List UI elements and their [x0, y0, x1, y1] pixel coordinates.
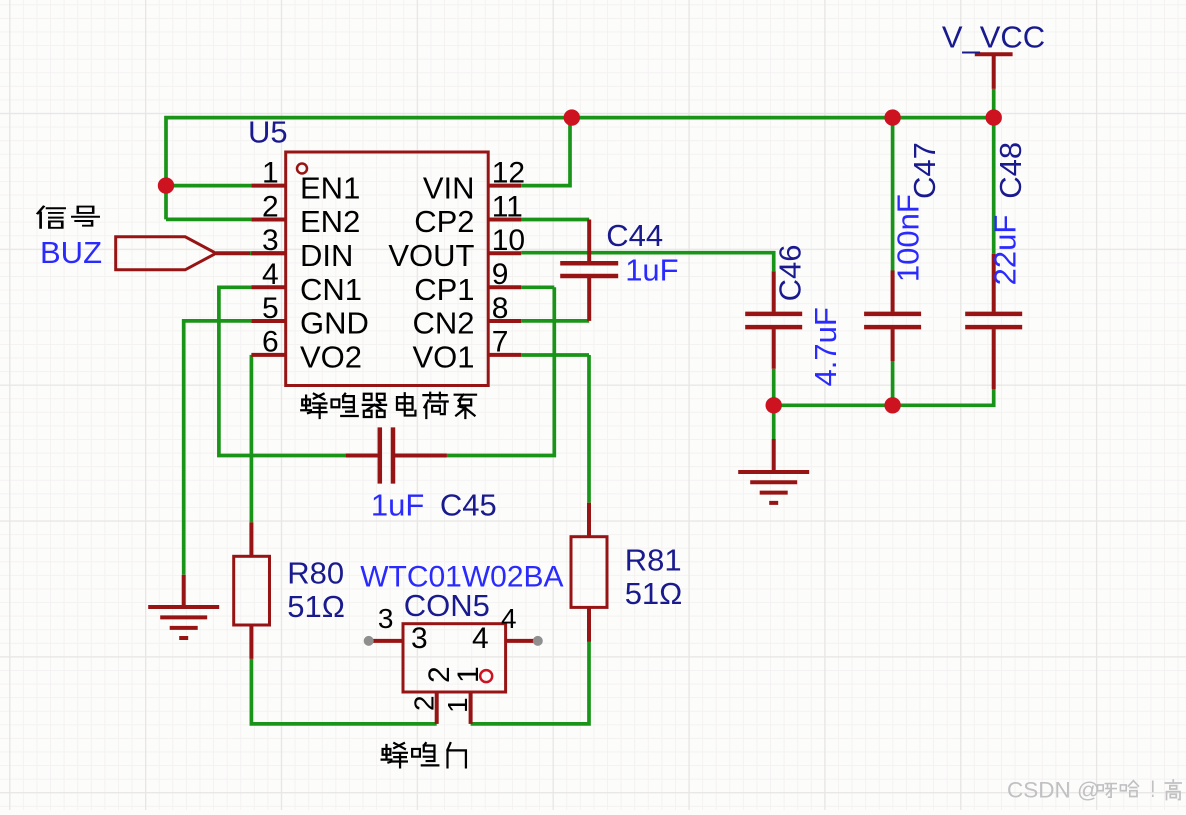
svg-text:3: 3 — [262, 224, 279, 257]
svg-text:BUZ: BUZ — [40, 235, 102, 270]
CON5 description 蜂鸣片 — [382, 743, 407, 767]
wire VOUT to C46 — [521, 253, 774, 272]
svg-text:4: 4 — [262, 258, 279, 291]
wire CON5 pin1 to R81 bottom — [471, 642, 589, 724]
junction dot (892.6,117.6) — [884, 109, 900, 125]
svg-text:VO2: VO2 — [300, 340, 362, 375]
wire pin2 EN2 branch — [166, 218, 251, 222]
wire CP1 down to C45 right — [447, 287, 554, 455]
svg-text:8: 8 — [492, 292, 509, 325]
junction dot (892.6,405.3) — [884, 397, 900, 413]
net label BUZ flag — [116, 237, 216, 270]
wire ground stem right — [772, 405, 776, 439]
capacitor C47 — [891, 271, 895, 362]
U5 pin1 indicator circle — [297, 164, 307, 174]
wire GND net down — [184, 321, 252, 575]
svg-text:CP1: CP1 — [414, 272, 474, 307]
svg-text:DIN: DIN — [300, 238, 353, 273]
U5 pin 11 stub — [488, 218, 521, 222]
svg-text:EN1: EN1 — [300, 170, 360, 205]
svg-text:2: 2 — [262, 190, 279, 223]
ground symbol left (GND net) — [182, 575, 186, 607]
U5 pin 3 stub — [251, 251, 285, 255]
ground symbol right (under C46) — [772, 439, 776, 472]
svg-text:100nF: 100nF — [890, 194, 925, 282]
svg-text:4: 4 — [501, 603, 517, 634]
CON5 pin 4 lead — [506, 639, 538, 643]
wire C48 top — [992, 118, 996, 254]
svg-text:22uF: 22uF — [988, 215, 1023, 286]
U5 pin 10 stub — [488, 251, 521, 255]
wire R80 bottom to CON5 pin2 — [251, 659, 436, 724]
junction dot (166,185.6) — [158, 177, 174, 193]
U5 pin 9 stub — [488, 285, 521, 289]
svg-text:U5: U5 — [248, 114, 288, 149]
wire CN2 to C44 bottom — [521, 319, 589, 323]
CON5 pin 2 lead — [435, 692, 439, 724]
CON5 pin1 indicator circle — [480, 670, 492, 682]
svg-text:R81: R81 — [625, 543, 682, 578]
U5 pin 7 stub — [488, 353, 521, 357]
svg-text:51Ω: 51Ω — [625, 576, 683, 611]
svg-text:CP2: CP2 — [414, 204, 474, 239]
wire C46 bottom rail to C48 — [774, 369, 994, 406]
wire pin1 EN1 branch — [166, 184, 251, 188]
U5 pin 12 stub — [488, 184, 521, 188]
resistor R81 — [587, 503, 591, 642]
svg-text:11: 11 — [492, 190, 523, 223]
svg-text:C45: C45 — [440, 487, 497, 522]
svg-text:6: 6 — [262, 326, 279, 359]
wire CN1 down to C45 left — [219, 287, 346, 455]
svg-text:GND: GND — [300, 306, 369, 341]
U5 description 蜂鸣器电荷泵 — [301, 394, 326, 418]
U5 pin 8 stub — [488, 319, 521, 323]
junction dot (993.7,117.6) — [986, 109, 1002, 125]
CON5 pin 3 lead — [369, 639, 403, 643]
svg-text:C46: C46 — [772, 245, 807, 302]
svg-text:R80: R80 — [287, 556, 344, 591]
junction dot (571.8,117.6) — [564, 109, 580, 125]
capacitor C46 — [772, 271, 776, 369]
svg-text:VO1: VO1 — [412, 340, 474, 375]
svg-text:4.7uF: 4.7uF — [808, 307, 843, 386]
U5 pin 5 stub — [251, 319, 285, 323]
U5 pin 1 stub — [251, 184, 285, 188]
svg-text:1: 1 — [452, 666, 485, 683]
net flag V_VCC — [975, 54, 1013, 89]
svg-text:10: 10 — [492, 224, 525, 257]
capacitor C45 — [346, 454, 447, 458]
capacitor C48 — [992, 254, 996, 389]
svg-text:51Ω: 51Ω — [287, 589, 345, 624]
svg-text:1uF: 1uF — [625, 252, 678, 287]
svg-text:C44: C44 — [606, 218, 663, 253]
junction dot (773.7,405.3) — [766, 397, 782, 413]
svg-text:5: 5 — [262, 292, 279, 325]
wire CP2 to C44 — [520, 218, 589, 222]
svg-text:CN2: CN2 — [412, 306, 474, 341]
svg-text:12: 12 — [492, 156, 525, 189]
wire net EN1/EN2 vertical + top rail V_VCC — [166, 118, 994, 220]
connector CON5 body — [403, 624, 506, 692]
svg-text:VOUT: VOUT — [388, 238, 474, 273]
wire C47 bottom — [891, 361, 895, 405]
svg-text:1uF: 1uF — [371, 487, 424, 522]
svg-text:7: 7 — [492, 326, 509, 359]
svg-text:1: 1 — [262, 156, 279, 189]
svg-text:CN1: CN1 — [300, 272, 362, 307]
CON5 pin 1 lead — [469, 692, 473, 724]
svg-text:VIN: VIN — [423, 170, 475, 205]
svg-text:CSDN @: CSDN @ — [1007, 778, 1100, 803]
svg-text:C47: C47 — [907, 142, 942, 199]
label 信号 — [38, 207, 65, 228]
svg-text:CON5: CON5 — [404, 588, 490, 623]
wire VO1 down to R81 — [521, 355, 589, 503]
svg-text:3: 3 — [378, 603, 394, 634]
op-amp U5 charge pump IC body — [286, 152, 489, 386]
U5 pin 2 stub — [251, 218, 285, 222]
wire C47 top — [891, 118, 895, 271]
svg-text:V_VCC: V_VCC — [942, 19, 1045, 54]
U5 pin 4 stub — [251, 285, 285, 289]
U5 pin 6 stub — [251, 353, 285, 357]
wire VO2 down to R80 — [250, 355, 254, 523]
capacitor C44 — [587, 220, 591, 321]
wire V_VCC stem lower — [992, 89, 996, 118]
wire VIN branch — [521, 118, 570, 186]
svg-text:C48: C48 — [993, 142, 1028, 199]
svg-text:1: 1 — [442, 697, 473, 713]
resistor R80 — [249, 522, 253, 659]
svg-text:9: 9 — [492, 258, 509, 291]
svg-text:2: 2 — [409, 695, 440, 711]
svg-text:4: 4 — [472, 622, 489, 655]
svg-text:EN2: EN2 — [300, 204, 360, 239]
svg-text:3: 3 — [411, 622, 428, 655]
